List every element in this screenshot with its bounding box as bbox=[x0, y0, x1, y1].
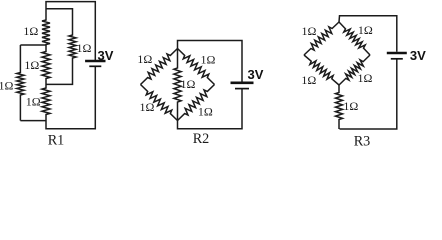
resistor R2b 1ohm (bridge top-right) bbox=[178, 49, 215, 85]
svg-text:3V: 3V bbox=[98, 48, 114, 63]
battery B2 3V bbox=[231, 83, 254, 89]
svg-text:3V: 3V bbox=[410, 48, 426, 63]
svg-text:R2: R2 bbox=[193, 131, 210, 147]
resistor R3b 1ohm (bridge top-right) bbox=[339, 22, 370, 55]
svg-text:1Ω: 1Ω bbox=[302, 24, 317, 38]
wire C1 node B to middle branch bottom bbox=[46, 59, 73, 85]
resistor R2c 1ohm (bridge bottom-left) bbox=[141, 85, 178, 121]
resistor R3d 1ohm (bridge bottom-right) bbox=[339, 55, 370, 85]
resistor R1e 1ohm (middle branch) bbox=[69, 35, 76, 59]
svg-text:1Ω: 1Ω bbox=[343, 99, 358, 113]
svg-text:1Ω: 1Ω bbox=[358, 71, 373, 85]
svg-text:1Ω: 1Ω bbox=[23, 24, 38, 38]
resistor R1b 1ohm (chain middle) bbox=[42, 51, 50, 79]
wire C1 outer top rail + battery positive lead bbox=[46, 2, 95, 60]
svg-text:1Ω: 1Ω bbox=[77, 41, 92, 55]
resistor R2a 1ohm (bridge top-left) bbox=[141, 49, 178, 85]
wire C1 chain node A segment bbox=[45, 45, 47, 51]
svg-text:1Ω: 1Ω bbox=[137, 52, 152, 66]
svg-text:1Ω: 1Ω bbox=[26, 95, 41, 109]
svg-text:1Ω: 1Ω bbox=[0, 78, 14, 92]
resistor R3c 1ohm (bridge bottom-left) bbox=[304, 55, 339, 85]
resistor R2e 1ohm (bridge middle vertical) bbox=[174, 49, 181, 121]
wire C1 node A to left branch bbox=[20, 44, 46, 46]
resistor R3a 1ohm (bridge top-left) bbox=[304, 22, 339, 55]
svg-text:R3: R3 bbox=[354, 134, 371, 150]
wire C3 top rail + battery positive lead bbox=[339, 16, 397, 52]
resistor R1a 1ohm (chain top) bbox=[42, 20, 50, 46]
svg-text:1Ω: 1Ω bbox=[24, 58, 39, 72]
wire C1 chain node B segment bbox=[45, 79, 47, 88]
svg-text:1Ω: 1Ω bbox=[140, 100, 155, 114]
wire C1 left branch upper lead bbox=[19, 45, 21, 72]
svg-text:R1: R1 bbox=[48, 132, 65, 148]
svg-text:1Ω: 1Ω bbox=[358, 23, 373, 37]
wire C3 battery negative lead + bottom rail bbox=[340, 59, 397, 129]
wire C1 chain bottom + bottom rail + battery negative lead bbox=[46, 66, 95, 129]
battery B3 3V bbox=[387, 53, 407, 59]
resistor R1d 1ohm (left branch) bbox=[17, 72, 24, 96]
svg-text:1Ω: 1Ω bbox=[181, 77, 196, 91]
resistor R2d 1ohm (bridge bottom-right) bbox=[178, 85, 215, 121]
svg-text:1Ω: 1Ω bbox=[201, 53, 216, 67]
resistor R3e 1ohm (bottom vertical) bbox=[336, 85, 343, 129]
battery B1 3V bbox=[85, 61, 105, 66]
svg-text:3V: 3V bbox=[248, 67, 264, 82]
wire C1 inner top rail to middle branch bbox=[46, 9, 73, 35]
wire C1 left branch lower lead bbox=[19, 96, 21, 121]
svg-text:1Ω: 1Ω bbox=[198, 104, 213, 118]
resistor R1c 1ohm (chain bottom) bbox=[42, 88, 50, 116]
svg-text:1Ω: 1Ω bbox=[301, 73, 316, 87]
wire C2 top rail + battery positive lead bbox=[178, 41, 243, 82]
wire C1 bottom node to left branch bbox=[20, 120, 46, 122]
wire C2 bottom rail + battery negative lead bbox=[178, 89, 243, 129]
